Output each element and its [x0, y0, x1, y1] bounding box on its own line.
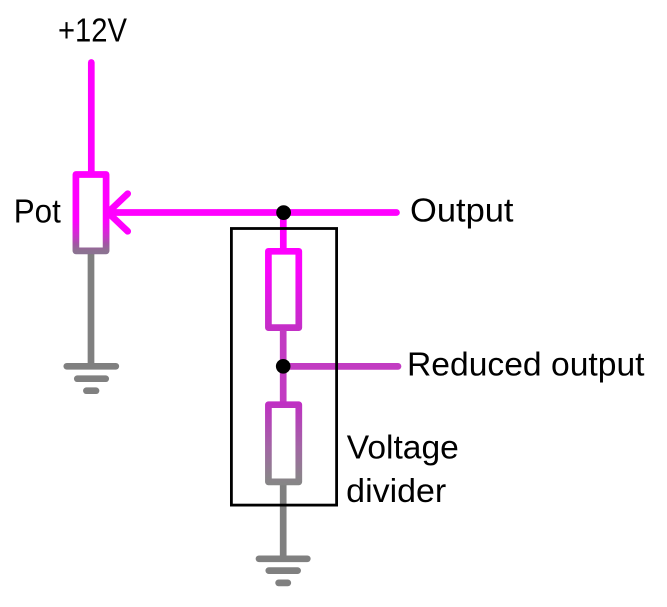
ground (bottom, under divider): [259, 559, 307, 583]
wire node B to Reduced output: [283, 363, 398, 370]
ground (left, under Pot): [67, 366, 116, 390]
voltage divider box: [231, 229, 336, 506]
node B (reduced output junction): [276, 359, 291, 374]
svg-text:Pot: Pot: [14, 193, 61, 230]
wire R2 to ground: [280, 484, 287, 559]
wire node A to R1: [280, 212, 287, 250]
svg-text:Output: Output: [410, 192, 514, 229]
svg-text:divider: divider: [346, 472, 446, 509]
svg-text:+12V: +12V: [58, 12, 127, 49]
node A (output junction): [276, 205, 291, 220]
resistor R1 (upper divider resistor): [268, 251, 298, 327]
potentiometer Pot body: [76, 175, 106, 251]
wire +12V to pot: [88, 63, 95, 173]
resistor R2 (lower divider resistor): [268, 405, 298, 482]
wire R1 to R2: [280, 330, 287, 403]
svg-text:Voltage: Voltage: [347, 429, 459, 466]
wiper arrow of Pot: [108, 194, 397, 232]
svg-text:Reduced output: Reduced output: [407, 346, 645, 383]
wire pot to ground: [88, 250, 95, 366]
